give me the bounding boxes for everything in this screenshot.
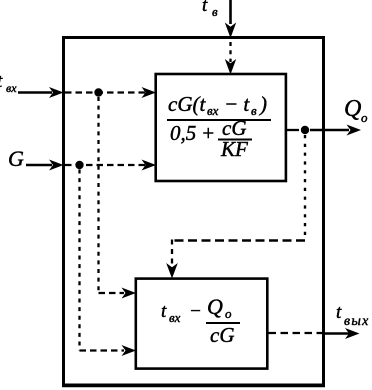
node J3 (Q_o branch): [301, 126, 309, 134]
block U2 (outlet temperature): [136, 279, 267, 369]
svg-text:G: G: [8, 146, 24, 171]
svg-text:t: t: [161, 301, 167, 322]
svg-text:Q: Q: [344, 96, 361, 122]
svg-text:о: о: [361, 110, 368, 125]
wire J1 to U2 (dashed down then right): [97, 97, 99, 293]
wire t_вых (dashed from U2 to boundary): [269, 332, 323, 334]
U1 formula nested fraction bar: [218, 139, 252, 141]
outer system boundary box: [64, 38, 324, 386]
svg-text:в: в: [212, 4, 218, 19]
wire t_в (dashed, into U1): [229, 42, 231, 62]
wire G (dashed to U1): [65, 164, 147, 166]
svg-text:cG(t: cG(t: [168, 92, 206, 116]
wire Q_o feedback to U2 (dashed): [304, 135, 306, 241]
svg-text:t: t: [336, 302, 342, 323]
U1 formula main fraction bar: [167, 119, 271, 121]
svg-text:Q: Q: [207, 294, 223, 319]
svg-text:+: +: [201, 121, 215, 145]
wire G input arrow (solid): [26, 164, 52, 167]
svg-text:0,5: 0,5: [170, 121, 196, 145]
svg-text:KF: KF: [220, 137, 248, 161]
wire J2 to U2 (dashed down then right): [78, 170, 80, 351]
svg-text:вх: вх: [6, 81, 17, 95]
svg-text:в: в: [251, 103, 257, 118]
svg-text:t: t: [202, 0, 208, 16]
svg-text:): ): [259, 92, 267, 116]
wire Q_o output (solid, through boundary): [287, 129, 299, 131]
svg-text:t: t: [0, 71, 3, 92]
svg-text:cG: cG: [210, 323, 235, 347]
wire t_вх (dashed to U1): [65, 91, 147, 93]
block U1 (heat transfer gain): [156, 74, 286, 181]
svg-text:о: о: [225, 306, 232, 321]
wire t_в input (solid, outside box): [229, 0, 232, 24]
svg-text:− t: − t: [224, 92, 250, 116]
svg-text:вх: вх: [207, 103, 219, 118]
node J1 (t_вх branch): [94, 88, 102, 96]
node J2 (G branch): [75, 161, 83, 169]
svg-text:вых: вых: [344, 314, 370, 329]
U2 formula fraction bar: [206, 322, 240, 324]
svg-text:вх: вх: [169, 310, 181, 325]
wire t_вых output arrow (solid): [323, 332, 349, 335]
wire t_вх input arrow (solid): [18, 91, 52, 94]
svg-text:−: −: [189, 301, 202, 322]
